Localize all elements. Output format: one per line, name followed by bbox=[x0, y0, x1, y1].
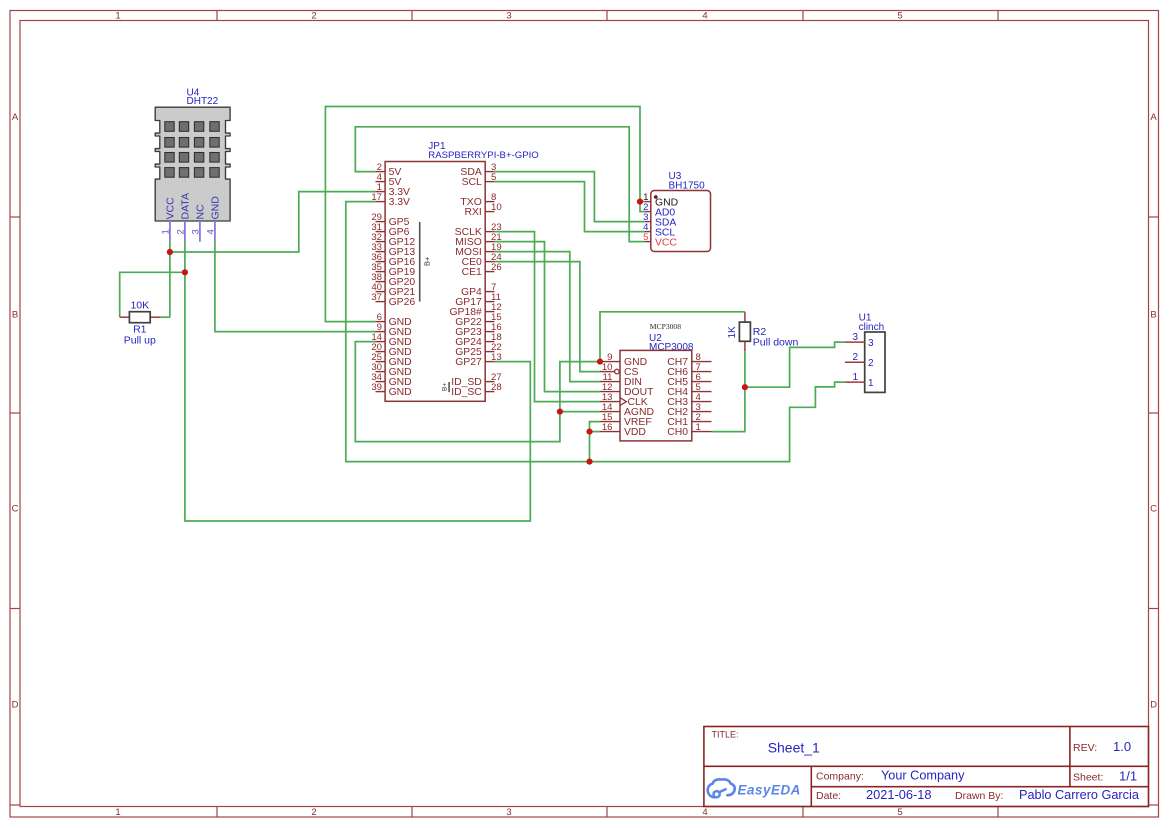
svg-text:Date:: Date: bbox=[816, 790, 841, 802]
title block frame bbox=[704, 727, 1149, 807]
wire GND: AGND stub bbox=[560, 411, 600, 413]
U3 pin leads bbox=[645, 202, 651, 242]
svg-text:DATA: DATA bbox=[180, 193, 192, 219]
wire SDA: JP1 SDA to BH1750 SDA bbox=[494, 172, 644, 222]
wire MOSI: JP1 MOSI to MCP3008 DIN bbox=[494, 252, 600, 382]
wire GND: JP1 pin14 down to MCP3008 AGND/GND bbox=[355, 342, 600, 442]
junction DATA at R1 bbox=[182, 269, 188, 275]
svg-text:C: C bbox=[12, 504, 19, 515]
svg-text:B+: B+ bbox=[422, 256, 431, 266]
IC U2 designator bbox=[649, 333, 694, 353]
U1 pin leads bbox=[845, 342, 865, 382]
svg-text:1/1: 1/1 bbox=[1119, 769, 1137, 784]
wire CE0: JP1 CE0 to MCP3008 CS bbox=[494, 262, 600, 372]
wire 3V3: VDD stub bbox=[590, 431, 601, 433]
sensor U4 DHT22 body bbox=[155, 107, 230, 221]
svg-text:RXI: RXI bbox=[464, 207, 481, 218]
svg-text:3: 3 bbox=[852, 332, 858, 343]
svg-text:1: 1 bbox=[696, 422, 701, 433]
JP1 left pin leads bbox=[376, 172, 386, 392]
wire VCC: DHT22 pin1 down to R1 right lead bbox=[169, 242, 171, 318]
wire VCC: R1 right lead to VCC vertical bbox=[160, 316, 170, 318]
svg-text:VDD: VDD bbox=[624, 427, 646, 438]
connector U1 clinch designator bbox=[859, 313, 885, 334]
svg-text:Pull down: Pull down bbox=[753, 337, 799, 349]
svg-text:4: 4 bbox=[702, 11, 707, 22]
svg-text:10K: 10K bbox=[130, 300, 149, 312]
svg-text:MCP3008: MCP3008 bbox=[650, 322, 681, 331]
svg-text:A: A bbox=[1150, 112, 1157, 123]
svg-text:3.3V: 3.3V bbox=[389, 197, 410, 208]
IC U3 BH1750 designator bbox=[669, 171, 706, 192]
svg-text:SCL: SCL bbox=[462, 177, 482, 188]
wire CH0: R2 junction staircase to U1 pin3 bbox=[745, 342, 845, 387]
U2 right pin leads bbox=[692, 362, 712, 432]
svg-text:1.0: 1.0 bbox=[1113, 739, 1131, 754]
svg-text:2021-06-18: 2021-06-18 bbox=[866, 787, 931, 802]
JP1 left pin numbers bbox=[371, 162, 382, 393]
svg-text:C: C bbox=[1150, 504, 1157, 515]
JP1 right pin leads bbox=[485, 172, 494, 392]
svg-text:D: D bbox=[1150, 700, 1157, 711]
svg-text:D: D bbox=[12, 700, 19, 711]
svg-text:2: 2 bbox=[311, 807, 316, 818]
svg-text:CE1: CE1 bbox=[462, 267, 482, 278]
IC U3 body bbox=[651, 191, 711, 252]
svg-text:3: 3 bbox=[190, 229, 201, 234]
svg-text:DHT22: DHT22 bbox=[187, 96, 219, 107]
svg-text:5: 5 bbox=[897, 807, 902, 818]
svg-text:28: 28 bbox=[491, 382, 502, 393]
svg-text:B: B bbox=[1150, 310, 1156, 321]
svg-text:GND: GND bbox=[389, 387, 412, 398]
junction GND at BH1750 pin1 bbox=[637, 199, 643, 205]
resistor R2 leads bbox=[744, 312, 746, 351]
connector U1 body bbox=[865, 332, 885, 392]
svg-text:Company:: Company: bbox=[816, 771, 864, 783]
svg-text:1: 1 bbox=[852, 372, 858, 383]
IC U2 body bbox=[620, 350, 692, 441]
svg-text:1: 1 bbox=[115, 807, 120, 818]
wire SCL: JP1 SCL to BH1750 SCL bbox=[494, 182, 644, 232]
svg-text:RASPBERRYPI-B+-GPIO: RASPBERRYPI-B+-GPIO bbox=[428, 150, 538, 161]
junction CH0 at R2 bbox=[742, 384, 748, 390]
svg-text:1: 1 bbox=[115, 11, 120, 22]
svg-text:ID_SC: ID_SC bbox=[451, 387, 482, 398]
U2 left pin leads bbox=[600, 362, 620, 432]
U4 pin numbers 1-4 bbox=[160, 229, 216, 234]
junction GND at MCP pin9 bbox=[597, 359, 603, 365]
wire GND: DHT22 pin4 down and right to JP1 pin9 bbox=[215, 242, 376, 332]
U2 left pin numbers bbox=[602, 352, 613, 433]
resistor R1 body bbox=[129, 312, 150, 323]
svg-text:Pablo Carrero Garcia: Pablo Carrero Garcia bbox=[1019, 788, 1140, 802]
svg-text:B: B bbox=[12, 310, 18, 321]
svg-text:17: 17 bbox=[371, 192, 382, 203]
JP1 right pin names bbox=[449, 167, 482, 398]
svg-text:4: 4 bbox=[702, 807, 707, 818]
svg-text:5: 5 bbox=[643, 232, 648, 243]
svg-text:3: 3 bbox=[868, 338, 874, 349]
svg-text:VCC: VCC bbox=[655, 237, 677, 248]
svg-text:2: 2 bbox=[175, 229, 186, 234]
EasyEDA logo link line bbox=[720, 789, 725, 792]
svg-text:GP26: GP26 bbox=[389, 297, 416, 308]
svg-text:CH0: CH0 bbox=[667, 427, 688, 438]
JP1 B+ id bar (ID_SD/ID_SC) bbox=[448, 382, 450, 392]
JP1 right pin numbers bbox=[491, 162, 502, 393]
svg-text:13: 13 bbox=[491, 352, 502, 363]
wire GND: JP1 pin6 up over to BH1750 GND/AD0 bbox=[325, 107, 644, 322]
sensor U4 grille squares bbox=[165, 122, 219, 178]
svg-text:4: 4 bbox=[205, 229, 216, 234]
wire GND: stub to BH1750 pin1 bbox=[640, 201, 645, 203]
junction GND at AGND bbox=[557, 409, 563, 415]
svg-text:Your Company: Your Company bbox=[881, 769, 965, 783]
connector JP1 labels bbox=[428, 141, 538, 161]
svg-text:Sheet_1: Sheet_1 bbox=[768, 740, 820, 756]
svg-text:2: 2 bbox=[311, 11, 316, 22]
wire DATA: DHT22 pin2 down, right, up to JP1 GP27 bbox=[185, 242, 530, 521]
wire 3V3: MCP3008 VREF/VDD to junction bbox=[590, 422, 601, 462]
svg-text:A: A bbox=[12, 112, 19, 123]
svg-text:5: 5 bbox=[897, 11, 902, 22]
resistor R2 body bbox=[739, 322, 750, 341]
U3 pin1 marker dot bbox=[654, 195, 658, 199]
wire SCLK: JP1 SCLK to MCP3008 CLK bbox=[494, 232, 600, 402]
svg-text:Pull up: Pull up bbox=[124, 335, 156, 347]
junction 3V3 at VDD bbox=[586, 429, 592, 435]
svg-text:5: 5 bbox=[491, 172, 496, 183]
svg-text:REV:: REV: bbox=[1073, 742, 1097, 754]
U2 right pin numbers bbox=[696, 352, 702, 433]
svg-text:Sheet:: Sheet: bbox=[1073, 772, 1103, 784]
svg-text:26: 26 bbox=[491, 262, 502, 273]
svg-text:B+: B+ bbox=[442, 383, 449, 391]
junction 3V3 at VREF branch bbox=[586, 459, 592, 465]
svg-text:1: 1 bbox=[868, 378, 874, 389]
wire MISO: JP1 MISO to MCP3008 DOUT bbox=[494, 242, 600, 392]
U4 pin stubs 1-4 bbox=[170, 221, 215, 242]
junction VCC at DHT pin1 bbox=[167, 249, 173, 255]
wire DATA: R1 left lead up to DATA vertical bbox=[120, 272, 185, 317]
wire 5V: JP1 pin2 up over to BH1750 VCC bbox=[355, 127, 644, 242]
wire GND: MCP3008 pin9 up to R2 top bbox=[600, 312, 745, 362]
svg-text:VCC: VCC bbox=[165, 197, 177, 220]
frame column labels bbox=[115, 11, 902, 819]
frame row labels bbox=[12, 112, 1158, 711]
svg-text:39: 39 bbox=[371, 382, 382, 393]
svg-text:EasyEDA: EasyEDA bbox=[738, 783, 801, 798]
svg-text:16: 16 bbox=[602, 422, 613, 433]
U4 pin names VCC DATA NC GND bbox=[165, 193, 222, 219]
connector JP1 body bbox=[385, 162, 485, 402]
svg-text:10: 10 bbox=[491, 202, 502, 213]
svg-text:Drawn By:: Drawn By: bbox=[955, 790, 1003, 802]
svg-text:TITLE:: TITLE: bbox=[712, 730, 739, 740]
U2 left pin names bbox=[624, 357, 654, 438]
svg-text:3: 3 bbox=[506, 807, 511, 818]
svg-text:NC: NC bbox=[195, 204, 207, 220]
wire 3V3: JP1 pin17 down right to VDD junction and U1 pin1 bbox=[346, 202, 845, 462]
svg-text:37: 37 bbox=[371, 292, 382, 303]
svg-text:1: 1 bbox=[160, 229, 171, 234]
resistor R1 leads bbox=[120, 316, 160, 318]
JP1 left pin names bbox=[389, 167, 416, 398]
svg-text:2: 2 bbox=[852, 352, 858, 363]
sensor U4 DHT22 label bbox=[187, 88, 219, 108]
svg-text:3: 3 bbox=[506, 11, 511, 22]
U2 CLK clock chevron pin13 bbox=[620, 398, 626, 406]
EasyEDA logo cloud bbox=[713, 779, 735, 795]
svg-text:2: 2 bbox=[868, 358, 874, 369]
svg-text:1K: 1K bbox=[727, 326, 738, 339]
wire VCC: junction to JP1 pin1 3.3V bbox=[170, 192, 376, 252]
EasyEDA logo wheel bbox=[714, 791, 720, 797]
U2 right pin names bbox=[667, 357, 688, 438]
svg-text:GND: GND bbox=[210, 196, 222, 220]
wire CH0: R2 bottom down to MCP3008 CH0 bbox=[712, 351, 745, 431]
JP1 B+ group bar (GPIO bank) bbox=[419, 222, 421, 302]
svg-text:GP27: GP27 bbox=[455, 357, 482, 368]
U2 CS inversion circle pin10 bbox=[615, 369, 620, 374]
